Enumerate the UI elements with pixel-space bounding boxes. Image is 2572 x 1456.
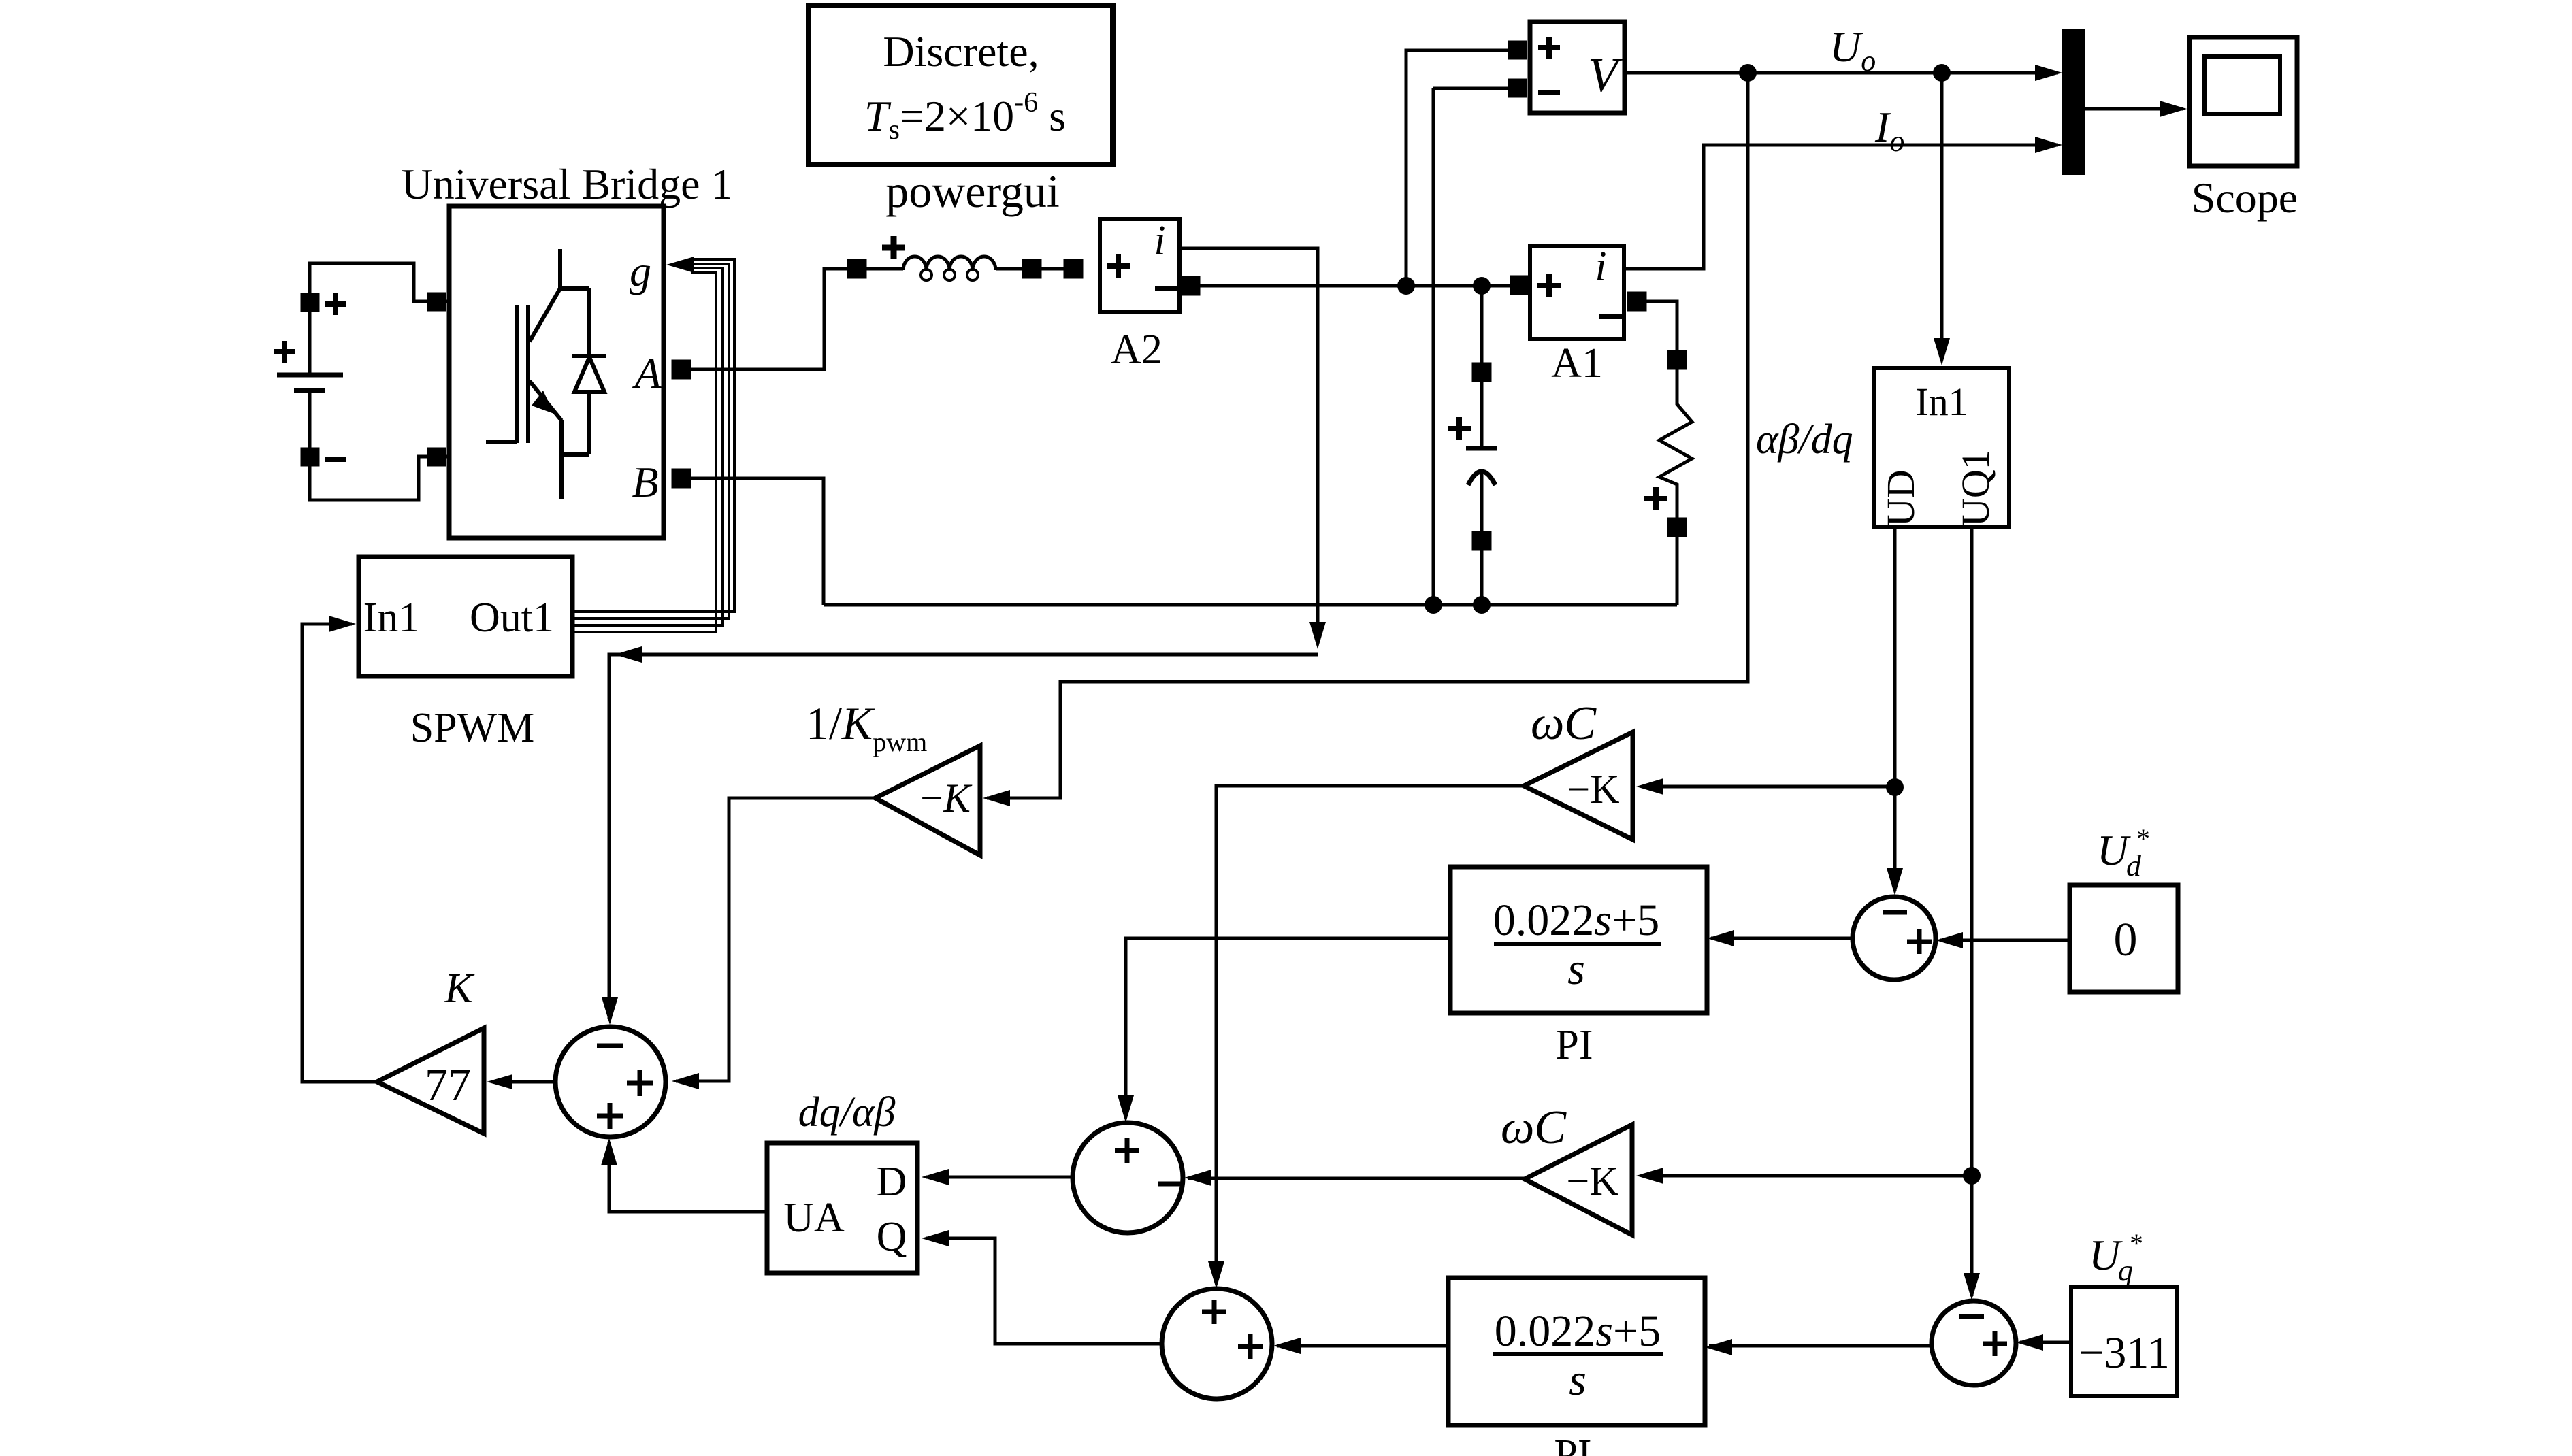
inductor L xyxy=(849,236,1040,280)
bridge dc- port xyxy=(429,449,444,465)
node Uo to In1 xyxy=(1933,64,1951,82)
svg-text:In1: In1 xyxy=(363,595,420,641)
node UD tap xyxy=(1886,778,1904,796)
capacitor C xyxy=(1448,286,1497,605)
constant -311 block xyxy=(2071,1287,2177,1396)
gain omegaC 1 (-K) xyxy=(1524,697,1633,840)
wire UQ1 output down xyxy=(1970,527,1974,1296)
node UQ1 tap xyxy=(1963,1167,1981,1185)
node capacitor tap xyxy=(1473,277,1491,295)
Universal Bridge 1 block xyxy=(402,160,733,538)
wire V- to bottom rail xyxy=(1433,87,1510,90)
svg-text:0.022s+5: 0.022s+5 xyxy=(1493,895,1659,945)
svg-text:−K: −K xyxy=(1567,767,1619,812)
UA block (dq to alpha-beta) xyxy=(767,1143,917,1273)
wire UQ1 to omegaC gain 2 xyxy=(1663,1174,1972,1178)
bottom rail wire xyxy=(824,603,1677,607)
svg-text:g: g xyxy=(630,247,651,295)
svg-text:UQ1: UQ1 xyxy=(1953,450,1998,527)
svg-text:q: q xyxy=(2118,1254,2133,1287)
main sum xyxy=(555,1027,666,1137)
node Uo to 1/Kpwm xyxy=(1739,64,1757,82)
wire A1- to resistor xyxy=(1644,301,1677,352)
svg-text:V: V xyxy=(1588,48,1623,102)
node V+ tap xyxy=(1397,277,1415,295)
svg-text:s: s xyxy=(1569,1355,1586,1405)
svg-text:Out1: Out1 xyxy=(470,595,554,641)
resistor R load xyxy=(1644,352,1692,535)
wire A to inductor xyxy=(689,269,849,369)
svg-text:Discrete,: Discrete, xyxy=(883,27,1039,76)
wire sum2 to UA D input xyxy=(926,1176,1073,1179)
node V- on rail xyxy=(1425,596,1442,614)
wire UD output down xyxy=(1893,527,1897,891)
svg-text:i: i xyxy=(1595,244,1606,290)
PI controller 1 xyxy=(1450,867,1707,1068)
svg-text:i: i xyxy=(1154,218,1165,264)
svg-text:ωC: ωC xyxy=(1531,697,1597,750)
Uo signal line V output to mux xyxy=(1624,71,2058,75)
svg-text:PI: PI xyxy=(1555,1022,1593,1068)
sum3 (q-axis) xyxy=(1162,1289,1272,1399)
A2 current measurement block xyxy=(1065,218,1199,373)
A1 current measurement block xyxy=(1512,244,1645,386)
feedback wire to main sum (minus input) xyxy=(609,655,1318,1019)
gain 1/Kpwm (-K) xyxy=(806,697,980,855)
wire UA output to main sum xyxy=(609,1142,768,1212)
In1 (alpha-beta to dq) block xyxy=(1874,368,2009,527)
svg-text:A1: A1 xyxy=(1551,340,1603,386)
svg-text:ωC: ωC xyxy=(1501,1102,1567,1154)
IGBT with antiparallel diode (bridge symbol) xyxy=(486,249,606,499)
constant 0 block xyxy=(2070,885,2178,992)
svg-text:*: * xyxy=(2136,823,2150,854)
sum1 (Ud* comparison) xyxy=(1853,897,1936,980)
svg-text:−K: −K xyxy=(920,776,973,821)
wire resistor to bottom rail xyxy=(1676,535,1679,605)
mux block xyxy=(2062,29,2085,175)
svg-text:αβ/dq: αβ/dq xyxy=(1756,416,1853,463)
wire Uo feedback to 1/Kpwm input xyxy=(987,73,1748,798)
wire omegaC2 output to sum2 xyxy=(1188,1177,1525,1180)
wire mux to scope xyxy=(2085,107,2183,111)
V voltage measurement block xyxy=(1510,22,1625,113)
svg-text:*: * xyxy=(2130,1228,2143,1259)
wire UD to omegaC gain 1 xyxy=(1663,785,1895,789)
svg-text:A2: A2 xyxy=(1111,327,1162,373)
wire B to bottom rail xyxy=(689,478,824,605)
node capacitor on rail xyxy=(1473,596,1491,614)
wire omegaC1 output to sum3 xyxy=(1216,786,1524,1283)
svg-text:s: s xyxy=(1567,944,1585,994)
wire battery- to bridge xyxy=(310,457,429,500)
svg-text:0.022s+5: 0.022s+5 xyxy=(1495,1306,1661,1356)
wire sum4 to PI2 xyxy=(1709,1344,1932,1348)
svg-text:d: d xyxy=(2126,849,2142,882)
bridge B port xyxy=(673,470,689,486)
wire gain 77 to SPWM In1 xyxy=(302,624,377,1082)
wire A2- to A1+ xyxy=(1198,284,1512,288)
wire battery+ to bridge xyxy=(310,263,429,301)
gain K = 77 xyxy=(377,965,484,1134)
wire 1/Kpwm output to main sum right input xyxy=(676,798,875,1081)
svg-text:Q: Q xyxy=(877,1214,907,1260)
svg-text:In1: In1 xyxy=(1915,380,1968,424)
svg-text:SPWM: SPWM xyxy=(410,705,535,751)
wire -311 to sum4 xyxy=(2020,1341,2071,1344)
svg-text:PI: PI xyxy=(1554,1432,1591,1456)
arrow into g port xyxy=(666,257,694,273)
svg-text:K: K xyxy=(444,965,475,1012)
SPWM block xyxy=(359,557,572,751)
Scope block xyxy=(2190,37,2298,222)
wire A2 i-output down to feedback line xyxy=(1179,248,1318,641)
wire sum3 to UA Q input xyxy=(926,1238,1162,1344)
wire main sum to gain 77 xyxy=(512,1080,555,1084)
svg-text:B: B xyxy=(632,458,658,506)
bridge dc+ port xyxy=(429,294,444,310)
svg-text:−K: −K xyxy=(1566,1159,1618,1204)
svg-text:UD: UD xyxy=(1878,469,1923,527)
battery DC source xyxy=(274,293,346,465)
wire Uo down into In1 block xyxy=(1940,73,1944,360)
bridge A port xyxy=(673,361,689,378)
Io signal line A1 output to mux xyxy=(1624,145,2058,269)
powergui block xyxy=(809,5,1113,217)
svg-text:−311: −311 xyxy=(2079,1328,2170,1378)
svg-text:Scope: Scope xyxy=(2192,173,2298,222)
svg-text:0: 0 xyxy=(2114,914,2138,966)
wire to V+ xyxy=(1406,50,1510,286)
sum2 (d-axis) xyxy=(1073,1123,1183,1233)
svg-text:powergui: powergui xyxy=(885,165,1060,217)
svg-text:Universal Bridge 1: Universal Bridge 1 xyxy=(402,160,733,208)
wire sum1 to PI1 xyxy=(1711,937,1853,940)
wire PI1 output to sum2 xyxy=(1126,938,1450,1117)
sum4 (Uq* comparison) xyxy=(1932,1301,2016,1385)
PI controller 2 xyxy=(1448,1278,1705,1456)
svg-text:dq/αβ: dq/αβ xyxy=(798,1089,896,1136)
svg-text:D: D xyxy=(877,1159,907,1205)
svg-text:UA: UA xyxy=(783,1195,845,1241)
wire inductor to A2 xyxy=(1039,267,1066,271)
wire 0 to sum1 xyxy=(1940,939,2070,942)
svg-text:A: A xyxy=(632,349,662,397)
svg-text:77: 77 xyxy=(425,1059,471,1110)
wire PI2 output to sum3 xyxy=(1277,1344,1448,1348)
gate signal bundle (4 wires Out1 to g) xyxy=(572,259,734,632)
gain omegaC 2 (-K) xyxy=(1501,1102,1632,1235)
